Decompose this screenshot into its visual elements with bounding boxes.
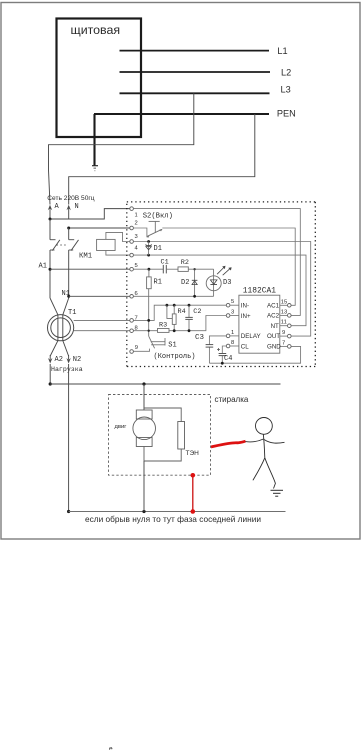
svg-text:D2: D2 [181,279,189,287]
svg-text:R3: R3 [159,321,167,329]
junction A-t1 [49,218,52,221]
wire PEN earth drop [93,114,95,166]
node N arrow [68,208,70,219]
wire bottom loop to GND [209,346,300,363]
mechanical link dots [57,244,69,246]
wire primary A through T1 [50,298,58,356]
contactor coil KM1 [97,239,116,250]
IC pin stubs right [280,305,288,346]
svg-text:7: 7 [282,340,285,346]
wire A to terminal1 [50,209,130,219]
junction hook [166,304,169,307]
wire CL to C4 [222,346,226,354]
capacitor C4 [219,353,227,355]
svg-text:AC2: AC2 [267,313,280,320]
svg-text:L2: L2 [281,67,291,77]
wire T1 secondary bottom to t8 [74,330,130,332]
resistor R4 [173,304,176,307]
capacitor C2 [188,304,191,307]
wire primary N through T1 [63,298,69,356]
IC pin circles left [226,303,230,347]
capacitor C1 [162,265,164,274]
svg-text:DELAY: DELAY [241,333,261,340]
wire phase to washer [50,383,280,385]
junction washer neutral [142,510,145,513]
wire into washer [143,384,145,410]
node N2 arrow [68,355,70,360]
transformer T1 [48,315,74,341]
panel box (щитовая) [57,19,142,138]
svg-text:C2: C2 [193,308,201,316]
wire DELAY to C3 [209,336,226,345]
svg-text:11: 11 [281,320,287,326]
wire t5 line [133,268,163,270]
IC pin numbers [231,299,287,346]
washer dashed box [109,395,211,476]
svg-text:13: 13 [281,309,287,315]
junction N-t2 [67,227,70,230]
svg-text:C1: C1 [161,259,169,267]
svg-text:5: 5 [231,299,234,305]
wire t8 line to IN+ [133,330,157,332]
svg-text:R2: R2 [181,259,189,267]
svg-text:AC1: AC1 [267,302,280,309]
wire L3 to A drop [49,93,194,204]
wire t2 to S2 [133,228,149,237]
svg-text:N: N [75,203,79,211]
svg-text:Сеть 220В 50гц: Сеть 220В 50гц [47,195,94,202]
junction R1-t8 line [148,330,150,332]
svg-text:1182СА1: 1182СА1 [243,287,276,296]
push button S2 [147,221,163,236]
junction N2 bottom [67,510,70,513]
wire N2 down [68,364,70,512]
svg-text:КМ1: КМ1 [79,253,93,261]
wire L3 [120,92,270,94]
terminals column [130,207,134,354]
wire coil top to t3 [106,232,130,241]
svg-text:2: 2 [135,221,138,227]
wire N to terminal2 [69,227,130,229]
junction R1 to t7 line [147,319,150,322]
ground symbol [271,489,284,491]
device dotted border [127,202,315,367]
wire t6 line [133,295,213,297]
wire motor bottom [144,447,181,462]
wire A1 down [49,250,51,298]
wire N1 down [68,250,70,298]
switch S1 [149,336,165,348]
diode D2 [194,269,196,296]
node A2 arrow [49,355,51,360]
svg-text:9: 9 [135,345,138,351]
svg-text:3: 3 [231,310,234,316]
svg-text:если обрыв нуля то тут фаза со: если обрыв нуля то тут фаза соседней лин… [85,514,261,524]
heater TEN [178,422,185,450]
junction motor tap [142,382,145,385]
svg-text:L1: L1 [277,46,287,56]
svg-text:S2(Вкл): S2(Вкл) [143,212,173,220]
wire t7 to IN- line [133,305,226,320]
red dot bottom [191,509,196,514]
contactor KM1 contact A [50,239,56,241]
svg-text:OUT: OUT [267,333,280,340]
svg-text:8: 8 [231,340,234,346]
svg-text:е: е [109,746,113,750]
svg-text:GND: GND [267,344,281,351]
wire A down to contact [49,219,51,240]
wire t9 to S1 [133,349,149,352]
internal wiring [133,209,310,364]
wire PEN to N drop [69,114,255,205]
wire PEN [94,113,269,115]
wire T1 secondary top to t7 [74,319,130,321]
wire S2 to AC1 [162,228,295,305]
svg-text:D1: D1 [154,245,162,253]
svg-text:C3: C3 [195,334,205,342]
svg-text:D3: D3 [223,279,231,287]
wire coil bottom to t4 [106,251,130,256]
svg-text:ТЭН: ТЭН [186,450,200,457]
svg-text:(Контроль): (Контроль) [154,353,196,361]
svg-text:N2: N2 [73,356,81,364]
svg-text:IN+: IN+ [241,313,251,320]
IC U1 1182CA1 [239,295,280,353]
svg-text:R4: R4 [178,308,186,316]
wire washer to neutral [143,461,145,512]
svg-text:A1: A1 [39,263,47,271]
resistor R3 [158,329,170,333]
svg-text:T1: T1 [68,309,76,317]
svg-text:C4: C4 [224,355,232,363]
svg-text:9: 9 [282,330,285,336]
ground tick [92,165,98,167]
wire A2 down [49,364,51,384]
wire t4 line to NT [133,255,306,326]
wire N1 to terminal6 [69,295,130,297]
IC pin stubs left [230,305,239,346]
wire t1 to AC2 [133,209,300,316]
page frame [1,3,360,540]
junction C4 bottom [221,362,224,365]
svg-text:5: 5 [135,263,138,269]
wire C3 down [208,347,210,363]
svg-text:щитовая: щитовая [71,23,121,37]
svg-text:R1: R1 [154,279,162,287]
IC pin names [241,302,281,350]
capacitor C3 [206,344,214,346]
IC pin circles right [288,304,292,349]
wire L2 [120,71,271,73]
svg-text:IN-: IN- [241,303,249,310]
red phase touch line [211,441,246,447]
svg-text:Нагрузка: Нагрузка [51,366,83,373]
svg-text:NT: NT [271,323,279,330]
svg-text:L3: L3 [281,84,291,94]
stick man [246,418,285,489]
svg-text:CL: CL [241,343,249,350]
svg-text:двиг: двиг [115,424,127,430]
contactor KM1 contact N [69,239,75,241]
red neutral break line [192,475,194,511]
svg-text:1: 1 [231,330,234,336]
LED arrows [217,267,224,274]
wire C4 down [221,356,223,364]
wire N down to contact [68,228,70,240]
node A arrow [49,208,51,219]
svg-text:15: 15 [281,299,287,305]
svg-text:1: 1 [135,213,138,219]
junction A2 [49,382,52,385]
wire motor to TEN top [144,408,181,422]
wire A1 to terminal5 [50,268,130,270]
svg-text:PEN: PEN [277,108,296,118]
svg-text:3: 3 [135,234,138,240]
junction N1-t6 [67,295,70,298]
wire t3 line to OUT [133,242,310,337]
svg-text:S1: S1 [168,342,176,350]
diode D1 zener [147,240,150,243]
svg-text:A2: A2 [55,356,63,364]
motor M [136,410,152,419]
terminal numbers 1-9 [135,213,139,352]
resistor R1 [148,268,151,271]
wire neutral bottom [69,511,286,513]
junction A1-t5 [49,268,52,271]
plus sign [217,348,220,351]
svg-text:стиралка: стиралка [215,395,249,404]
LED D3 [213,269,215,296]
wire L1 [120,50,270,52]
resistor R2 [178,267,188,272]
red dot top [191,473,196,478]
